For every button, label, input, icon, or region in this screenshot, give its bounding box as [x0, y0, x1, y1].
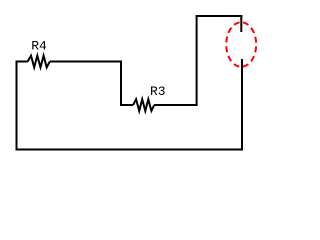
- wire top-left horizontal (R4 leads): [16, 61, 123, 63]
- highlight ellipse (missing component): [226, 22, 256, 67]
- wire middle horizontal (R3 leads): [120, 104, 198, 106]
- resistor R4: [28, 56, 50, 68]
- svg-text:R3: R3: [150, 84, 166, 99]
- wire middle vertical: [120, 61, 122, 106]
- wire top-right horizontal: [196, 15, 243, 17]
- resistor R3: [133, 99, 154, 111]
- wire top stub into gap: [240, 15, 242, 32]
- wire right-middle vertical: [196, 15, 198, 106]
- wire left vertical: [16, 61, 18, 151]
- wire bottom horizontal: [16, 149, 244, 151]
- wire lower-right vertical from gap to bottom: [241, 59, 243, 150]
- svg-text:R4: R4: [31, 38, 47, 53]
